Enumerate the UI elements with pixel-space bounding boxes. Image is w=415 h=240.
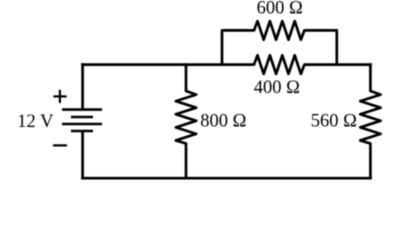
battery minus terminal sign xyxy=(53,144,67,146)
wire left branch lower from battery negative plate to bottom wire xyxy=(81,131,84,180)
battery V1 long plate xyxy=(62,123,102,126)
svg-text:800 Ω: 800 Ω xyxy=(200,112,246,132)
battery V1 long plate top xyxy=(62,108,102,111)
svg-text:600 Ω: 600 Ω xyxy=(257,0,303,19)
battery V1 short plate bottom xyxy=(71,130,93,133)
svg-text:560 Ω: 560 Ω xyxy=(311,112,357,132)
wire left branch upper from top wire to battery positive plate xyxy=(81,63,84,109)
battery plus terminal sign xyxy=(53,90,66,103)
svg-text:12 V: 12 V xyxy=(17,112,54,132)
resistor R_800 vertical with leads xyxy=(176,63,196,178)
resistor R_560 vertical with leads xyxy=(360,63,380,179)
svg-text:400 Ω: 400 Ω xyxy=(254,78,300,98)
wire bottom main xyxy=(81,177,372,180)
wire parallel branch box with 600 ohm resistor xyxy=(222,21,337,65)
battery V1 short plate xyxy=(71,116,93,119)
wire top main with 400 ohm resistor inline xyxy=(81,55,372,74)
